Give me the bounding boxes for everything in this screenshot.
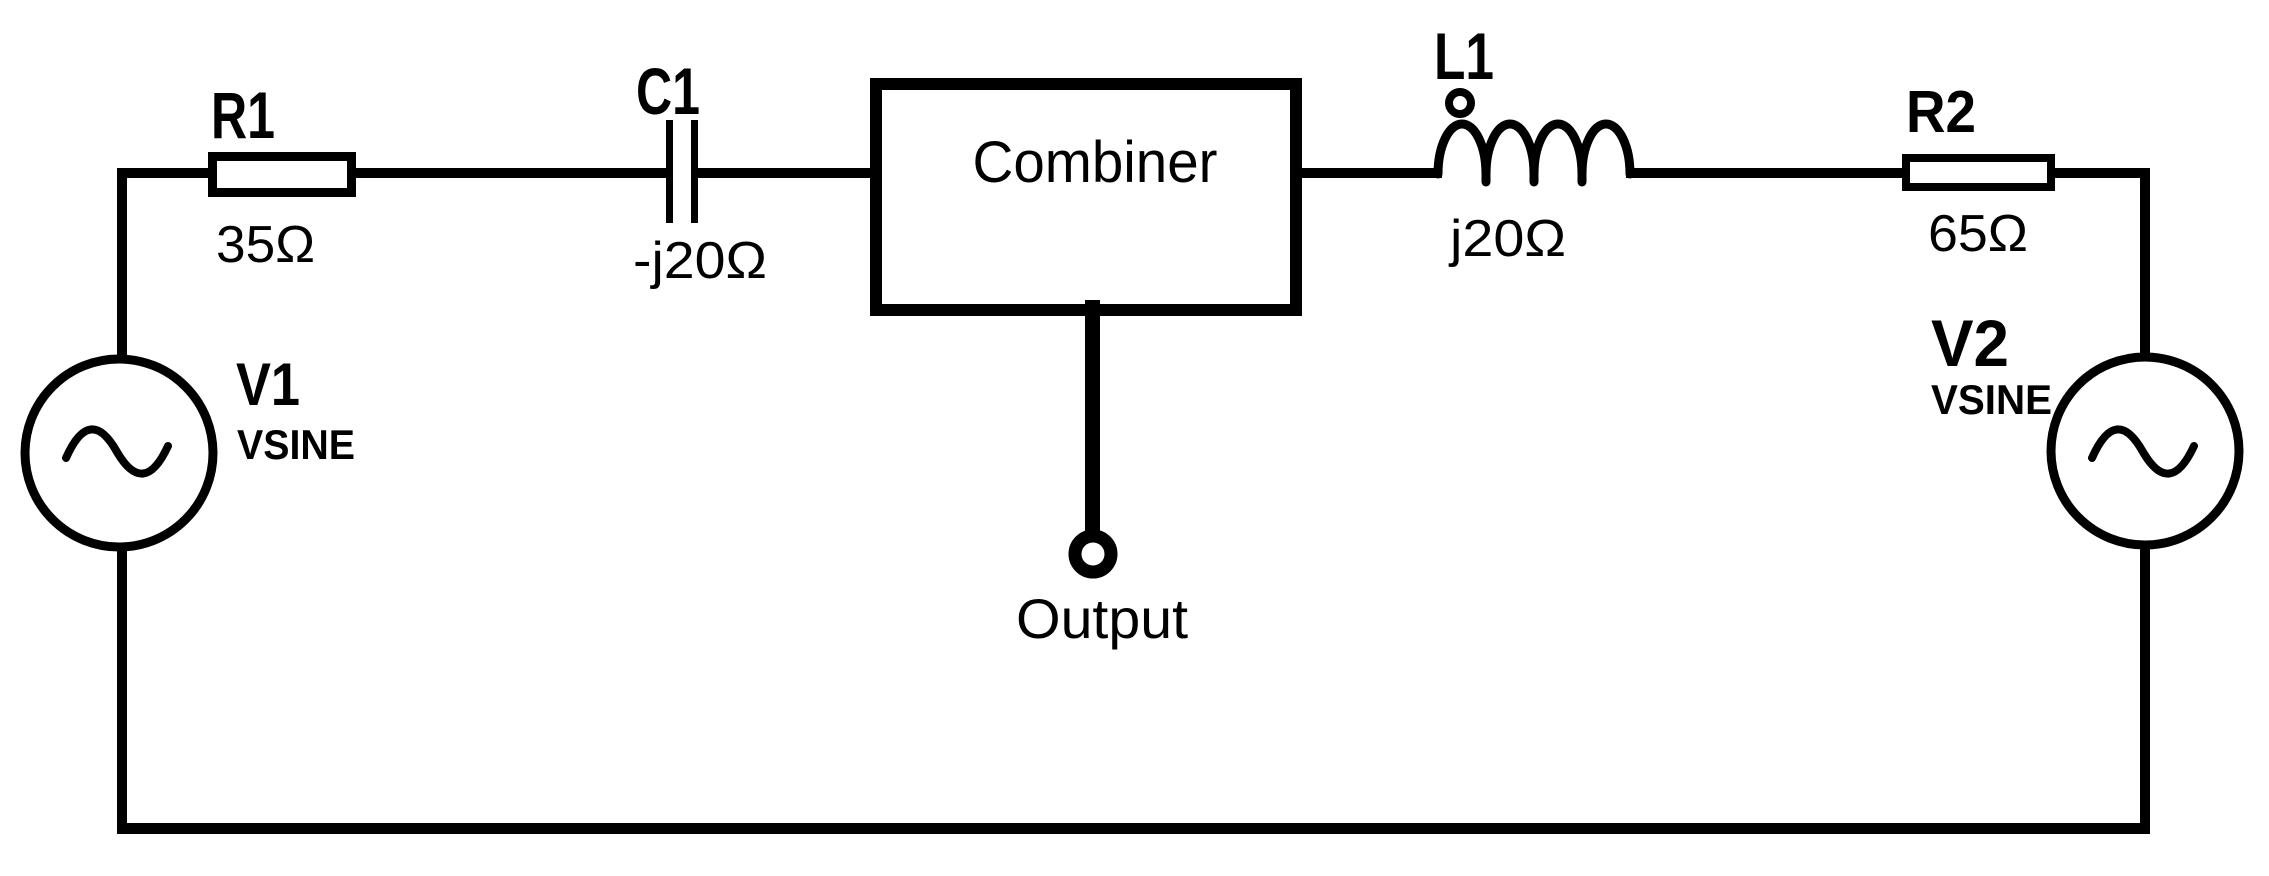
wire top segment R2 to right corner [2050,168,2150,178]
capacitor C1 right plate [691,120,698,223]
source V1 [25,359,213,547]
svg-text:L1: L1 [1434,19,1494,93]
inductor L1 [1438,124,1630,174]
wire top segment C1 to Combiner [698,168,878,178]
wire output stub [1085,300,1100,532]
wire right vertical V2 bottom [2140,544,2150,834]
inductor L1 dip 3 [1578,172,1587,182]
source V2 [2051,357,2239,545]
svg-text:R1: R1 [211,78,275,152]
capacitor C1 left plate [666,120,673,223]
inductor L1 dip 2 [1530,172,1539,182]
svg-text:VSINE: VSINE [237,421,355,468]
combiner block U1 [876,84,1296,310]
source V2 sine mark [2092,429,2194,473]
svg-text:Output: Output [1016,587,1188,650]
wire right vertical V2 top [2140,168,2150,359]
svg-text:Combiner: Combiner [973,130,1218,195]
svg-text:65Ω: 65Ω [1928,205,2028,263]
inductor L1 dip 1 [1482,172,1491,182]
wire left vertical V1 bottom [117,546,127,834]
resistor R1 [213,157,352,193]
wire top segment V1 to R1 [117,168,213,178]
resistor R2 [1906,158,2051,187]
svg-text:V1: V1 [236,351,300,418]
source V1 sine mark [66,429,168,473]
wire bottom return [117,823,2150,834]
svg-text:VSINE: VSINE [1931,376,2052,423]
svg-text:35Ω: 35Ω [216,216,315,274]
wire left vertical V1 top [117,168,127,360]
wire top segment Combiner to L1 [1296,168,1442,178]
svg-text:C1: C1 [636,54,700,128]
wire top segment R1 to C1 [351,168,667,178]
svg-text:-j20Ω: -j20Ω [633,232,767,290]
wire top segment L1 to R2 [1626,168,1906,178]
svg-text:V2: V2 [1931,306,2009,380]
svg-text:j20Ω: j20Ω [1448,210,1566,268]
svg-text:R2: R2 [1906,79,1976,145]
node Output terminal ring [1075,536,1111,572]
inductor L1 phase dot [1449,92,1471,114]
